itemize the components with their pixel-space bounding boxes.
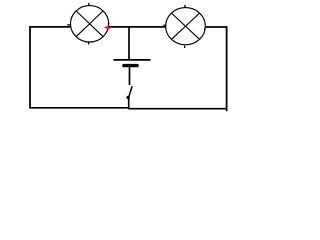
wire left vertical	[29, 26, 31, 108]
battery B1 negative plate (short thick)	[124, 64, 137, 67]
wire bottom-left horizontal	[29, 107, 129, 109]
wire battery to switch vertical	[129, 67, 131, 85]
wire bottom-right horizontal	[128, 108, 227, 110]
lamp L1	[67, 3, 108, 45]
wire right vertical	[226, 26, 228, 111]
wire switch to bottom vertical	[128, 98, 130, 109]
switch S1 contact dot	[127, 96, 130, 99]
lamp L2	[163, 5, 205, 48]
wire top-right horizontal	[206, 26, 228, 28]
battery B1 positive plate (long thin)	[114, 59, 151, 61]
wire battery top stub vertical	[128, 27, 130, 60]
red current arrow at lamp L1 right terminal	[104, 25, 110, 29]
switch S1 blade (open)	[129, 86, 132, 97]
wire top-left horizontal	[29, 26, 71, 28]
wire middle horizontal between lamps	[109, 26, 165, 28]
